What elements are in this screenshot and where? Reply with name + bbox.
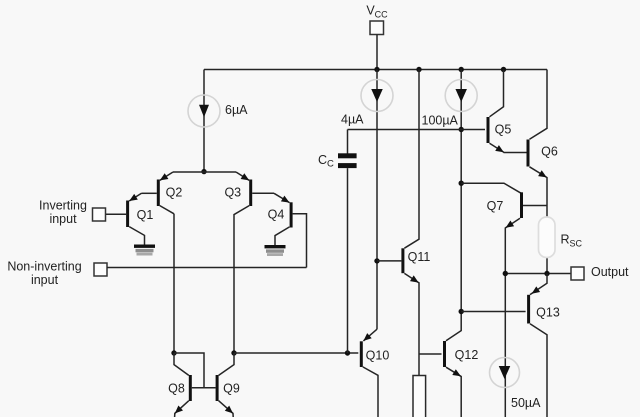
transistor Q4 collector lead	[275, 227, 290, 245]
transistor Q11 emitter lead	[404, 273, 419, 375]
svg-text:6µA: 6µA	[225, 103, 248, 117]
Vcc terminal pad	[370, 21, 384, 35]
label R_SC	[561, 233, 583, 249]
label Q10	[366, 349, 390, 363]
node tail junction dot	[201, 169, 206, 174]
wire mirror to Q10 base	[234, 352, 358, 354]
svg-text:Q9: Q9	[223, 382, 240, 396]
svg-text:Q12: Q12	[455, 348, 479, 362]
resistor R1	[413, 376, 426, 417]
transistor Q1 emitter lead	[129, 193, 141, 201]
svg-text:100µA: 100µA	[422, 114, 459, 128]
transistor Q13 body bar	[527, 295, 530, 324]
transistor Q8 body bar	[189, 375, 192, 401]
label 50uA	[511, 396, 541, 410]
wire Vcc pad to top rail	[376, 35, 378, 70]
label Q11	[408, 250, 431, 264]
current source I1 6uA	[188, 95, 220, 127]
svg-text:Q2: Q2	[166, 186, 183, 200]
label Q5	[495, 123, 512, 137]
transistor Q11 collector lead	[404, 70, 419, 249]
wire rail to Q10 emitter	[376, 70, 378, 330]
transistor Q9 body bar	[216, 375, 219, 401]
junction dot rail/Q11 collector	[416, 67, 421, 72]
svg-text:Q5: Q5	[495, 123, 512, 137]
junction dot left mirror	[171, 350, 176, 355]
svg-text:Q11: Q11	[408, 250, 431, 264]
svg-text:input: input	[31, 273, 59, 287]
transistor Q11 base lead	[377, 260, 401, 262]
junction dot 100uA/Q7 collector	[459, 181, 464, 186]
transistor Q12 body bar	[443, 341, 446, 367]
svg-text:Q8: Q8	[168, 382, 185, 396]
non-inverting input pad	[94, 263, 107, 276]
transistor Q5 body bar	[487, 117, 490, 143]
svg-text:Q7: Q7	[487, 199, 504, 213]
transistor Q6 collector lead	[530, 70, 548, 140]
transistor Q10 emitter lead	[363, 329, 377, 341]
svg-text:50µA: 50µA	[511, 396, 541, 410]
junction dot 100uA/Q5 base	[459, 127, 464, 132]
label Inverting input	[39, 199, 87, 227]
transistor Q5 collector lead	[490, 70, 504, 117]
junction dot output/Rsc	[544, 271, 549, 276]
wire emitter header Q2-Q3	[173, 171, 236, 173]
inverting input pad	[93, 208, 106, 221]
transistor Q4 emitter lead	[274, 193, 290, 202]
junction dot rail/4uA	[374, 67, 379, 72]
label Q4	[268, 208, 285, 222]
transistor Q6 emitter lead	[530, 167, 548, 220]
transistor Q7 emitter lead	[505, 218, 520, 417]
label Q12	[455, 348, 479, 362]
junction dot output/Q7 line	[503, 271, 508, 276]
transistor Q3 body bar	[249, 180, 252, 207]
svg-text:Q1: Q1	[137, 208, 154, 222]
current source I4 50uA	[490, 358, 520, 388]
transistor Q2 base lead	[142, 192, 157, 194]
svg-text:Q13: Q13	[536, 306, 560, 320]
transistor Q10 body bar	[360, 341, 363, 367]
transistor Q9 emitter lead	[219, 401, 234, 417]
label Output	[591, 265, 629, 279]
label C_C	[318, 153, 334, 170]
transistor Q2 body bar	[157, 180, 160, 207]
current source I2 4uA	[361, 80, 393, 112]
transistor Q2 emitter lead	[160, 172, 173, 180]
label Q3	[224, 186, 241, 200]
wire Cc top to Q5 base	[348, 129, 486, 131]
transistor Q8 emitter lead	[175, 401, 189, 417]
label 100uA	[422, 114, 459, 128]
wire mirror base tie	[174, 353, 216, 388]
transistor Q7 base lead	[523, 205, 547, 207]
transistor Q10 collector lead	[363, 367, 378, 417]
junction dot rail/Q5 collector	[501, 67, 506, 72]
label Q7	[487, 199, 504, 213]
transistor Q3 collector lead	[234, 206, 249, 353]
transistor Q3 base lead	[252, 192, 274, 194]
svg-text:Output: Output	[591, 265, 629, 279]
transistor Q11 body bar	[401, 248, 404, 273]
transistor Q3 emitter lead	[236, 172, 249, 180]
junction dot right mirror	[231, 350, 236, 355]
label Q1	[137, 208, 154, 222]
label 4uA	[341, 113, 364, 127]
label Q13	[536, 306, 560, 320]
label Q8	[168, 382, 185, 396]
wire 100uA to Q7 collector	[461, 183, 521, 193]
label Q2	[166, 186, 183, 200]
transistor Q13 base lead	[461, 311, 525, 313]
junction dot 100uA/Q12 collector	[459, 309, 464, 314]
ground under Q4	[265, 245, 286, 256]
transistor Q4 body bar	[290, 202, 293, 227]
svg-text:Q6: Q6	[541, 145, 558, 159]
output pad	[571, 267, 584, 280]
wire Cc to Q10 base line	[347, 168, 349, 353]
wire Q5-base line to Cc	[347, 130, 349, 154]
wire Q2 collector to mirror	[173, 214, 175, 353]
transistor Q6 body bar	[527, 140, 530, 167]
transistor Q13 collector lead	[530, 324, 547, 417]
wire output line	[505, 273, 571, 275]
label Non-inverting input	[7, 260, 81, 288]
svg-text:Non-inverting: Non-inverting	[7, 260, 81, 274]
junction dot rail/100uA	[459, 67, 464, 72]
junction dot Q11 base	[374, 258, 379, 263]
svg-text:Q4: Q4	[268, 208, 285, 222]
transistor Q4 base lead	[293, 214, 307, 268]
label 6uA	[225, 103, 248, 117]
transistor Q1 collector lead	[129, 227, 144, 245]
wire Q11 emitter to Q12 base	[419, 353, 442, 355]
transistor Q9 collector lead	[219, 353, 234, 375]
svg-text:4µA: 4µA	[341, 113, 364, 127]
transistor Q13 emitter lead	[530, 274, 547, 295]
wire rail 100uA line	[460, 70, 462, 312]
transistor Q1 body bar	[126, 201, 129, 228]
transistor Q8 collector lead	[174, 353, 189, 375]
capacitor C_C	[338, 153, 357, 168]
transistor Q5 emitter lead	[490, 143, 527, 152]
transistor Q1 base lead	[106, 213, 127, 215]
label Q6	[541, 145, 558, 159]
svg-text:input: input	[49, 212, 77, 226]
svg-text:Q3: Q3	[224, 186, 241, 200]
junction dot Cc/Q10 base	[345, 350, 350, 355]
ground under Q1	[134, 245, 155, 256]
transistor Q12 collector lead	[446, 312, 461, 341]
resistor R_SC	[539, 217, 556, 258]
transistor Q7 body bar	[520, 192, 523, 218]
svg-text:Q10: Q10	[366, 349, 390, 363]
transistor Q12 emitter lead	[446, 367, 461, 417]
wire rail to input-pair tail	[203, 70, 205, 172]
power net V_CC label	[366, 4, 388, 20]
svg-text:Inverting: Inverting	[39, 199, 87, 213]
wire top supply rail	[204, 69, 547, 71]
transistor Q2 collector lead	[160, 206, 174, 214]
current source I3 100uA	[445, 80, 477, 112]
wire Rsc bottom to output	[546, 255, 548, 274]
label Q9	[223, 382, 240, 396]
wire non-inverting input to Q4 base	[107, 267, 307, 269]
